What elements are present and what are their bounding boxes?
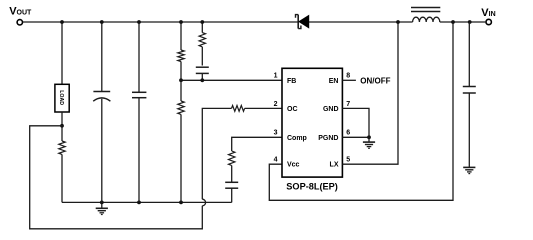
wire load to sense resistor	[61, 112, 63, 141]
terminal VIN	[486, 19, 491, 24]
node ground rail / C2	[137, 201, 141, 205]
svg-text:OC: OC	[287, 106, 298, 113]
capacitor C4 (comp)	[225, 182, 238, 188]
diode D1 (Schottky)	[296, 15, 309, 29]
resistor R4 (OC)	[232, 106, 245, 112]
wire pin 4 Vcc to VIN node	[269, 22, 453, 200]
wire pin 6 PGND	[342, 136, 369, 138]
wire FB node to R2	[180, 80, 182, 101]
wire pin 2 to R4	[245, 107, 282, 109]
svg-text:1: 1	[274, 73, 278, 80]
inductor L1	[411, 8, 440, 23]
wire VIN rail to C5	[468, 22, 470, 87]
wire R2 to ground rail	[180, 114, 182, 202]
wire OC sense loop to load node	[30, 126, 203, 229]
svg-text:LOAD: LOAD	[58, 90, 64, 105]
svg-text:EN: EN	[329, 78, 339, 85]
svg-text:8: 8	[346, 73, 350, 80]
svg-text:Comp: Comp	[287, 135, 307, 142]
svg-text:PGND: PGND	[318, 135, 338, 142]
wire diode anode to inductor	[309, 21, 413, 23]
wire pin 8 EN stub	[342, 79, 356, 81]
resistor R5 (comp)	[229, 151, 235, 166]
wire R5 to C4	[231, 166, 233, 183]
wire R4 down to crossover	[202, 108, 231, 199]
wire pin 7 GND	[342, 108, 369, 137]
wire C5 to ground	[468, 93, 470, 167]
svg-text:2: 2	[274, 101, 278, 108]
ground input	[463, 167, 475, 173]
wire C2 to ground rail	[138, 98, 140, 203]
svg-text:5: 5	[346, 157, 350, 164]
svg-text:7: 7	[346, 101, 350, 108]
svg-text:ON/OFF: ON/OFF	[360, 77, 390, 86]
load box	[55, 84, 69, 112]
wire FB node to pin 1	[181, 79, 282, 81]
capacitor C2	[132, 92, 146, 97]
wire R3 to C3	[201, 47, 203, 66]
node rail/C1	[100, 20, 104, 24]
node rail/C2	[137, 20, 141, 24]
resistor R1	[178, 50, 184, 62]
op-amp U1 SOP-8L(EP) body	[282, 68, 342, 177]
svg-text:SOP-8L(EP): SOP-8L(EP)	[286, 181, 338, 191]
node VIN/C5	[468, 20, 472, 24]
resistor R-sense	[59, 141, 65, 154]
node rail/R3	[200, 20, 204, 24]
node ground rail / C1	[100, 201, 104, 205]
svg-text:FB: FB	[287, 78, 296, 85]
resistor R2	[178, 101, 184, 114]
wire C1 to ground rail	[101, 99, 103, 203]
wire ground rail	[62, 201, 232, 203]
wire rail to R3	[201, 22, 203, 33]
wire sense resistor to ground rail	[61, 154, 63, 202]
node ground rail / R2	[179, 201, 183, 205]
wire VOUT rail to load	[61, 22, 63, 84]
wire VOUT rail to diode cathode	[23, 21, 298, 23]
ground output rail	[96, 202, 108, 214]
svg-text:Vcc: Vcc	[287, 162, 300, 169]
node FB/R1/R2	[179, 78, 183, 82]
node rail/R1	[179, 20, 183, 24]
node VIN/Vcc	[451, 20, 455, 24]
svg-text:GND: GND	[323, 106, 339, 113]
wire R1 to FB node	[180, 62, 182, 81]
wire rail to R1	[180, 22, 182, 50]
wire C4 to ground rail	[231, 188, 233, 202]
node LX/diode/inductor	[396, 20, 400, 24]
node load/OC-sense junction	[60, 124, 64, 128]
wire rail to C2	[138, 22, 140, 92]
wire inductor to VIN	[440, 21, 486, 23]
svg-text:VOUT: VOUT	[9, 6, 32, 18]
wire rail to C1	[101, 22, 103, 92]
wire hop over ground rail	[202, 199, 205, 206]
wire pin 5 LX to switch node	[342, 22, 398, 164]
svg-text:3: 3	[274, 130, 278, 137]
ground IC	[363, 137, 375, 148]
capacitor C5 (input)	[463, 87, 476, 94]
capacitor C3 (feed-forward)	[196, 67, 209, 73]
terminal VOUT	[17, 20, 22, 25]
wire C3 to FB node	[201, 73, 203, 80]
node FB/C3	[200, 78, 204, 82]
resistor R3 (feed-forward)	[199, 33, 205, 47]
svg-text:6: 6	[346, 130, 350, 137]
node rail/load	[60, 20, 64, 24]
svg-text:4: 4	[274, 157, 278, 164]
svg-text:LX: LX	[330, 162, 339, 169]
node GND/PGND	[367, 135, 371, 139]
wire pin 3 to R5	[232, 137, 282, 151]
svg-text:VIN: VIN	[481, 7, 495, 19]
capacitor C1 (electrolytic)	[93, 92, 110, 102]
